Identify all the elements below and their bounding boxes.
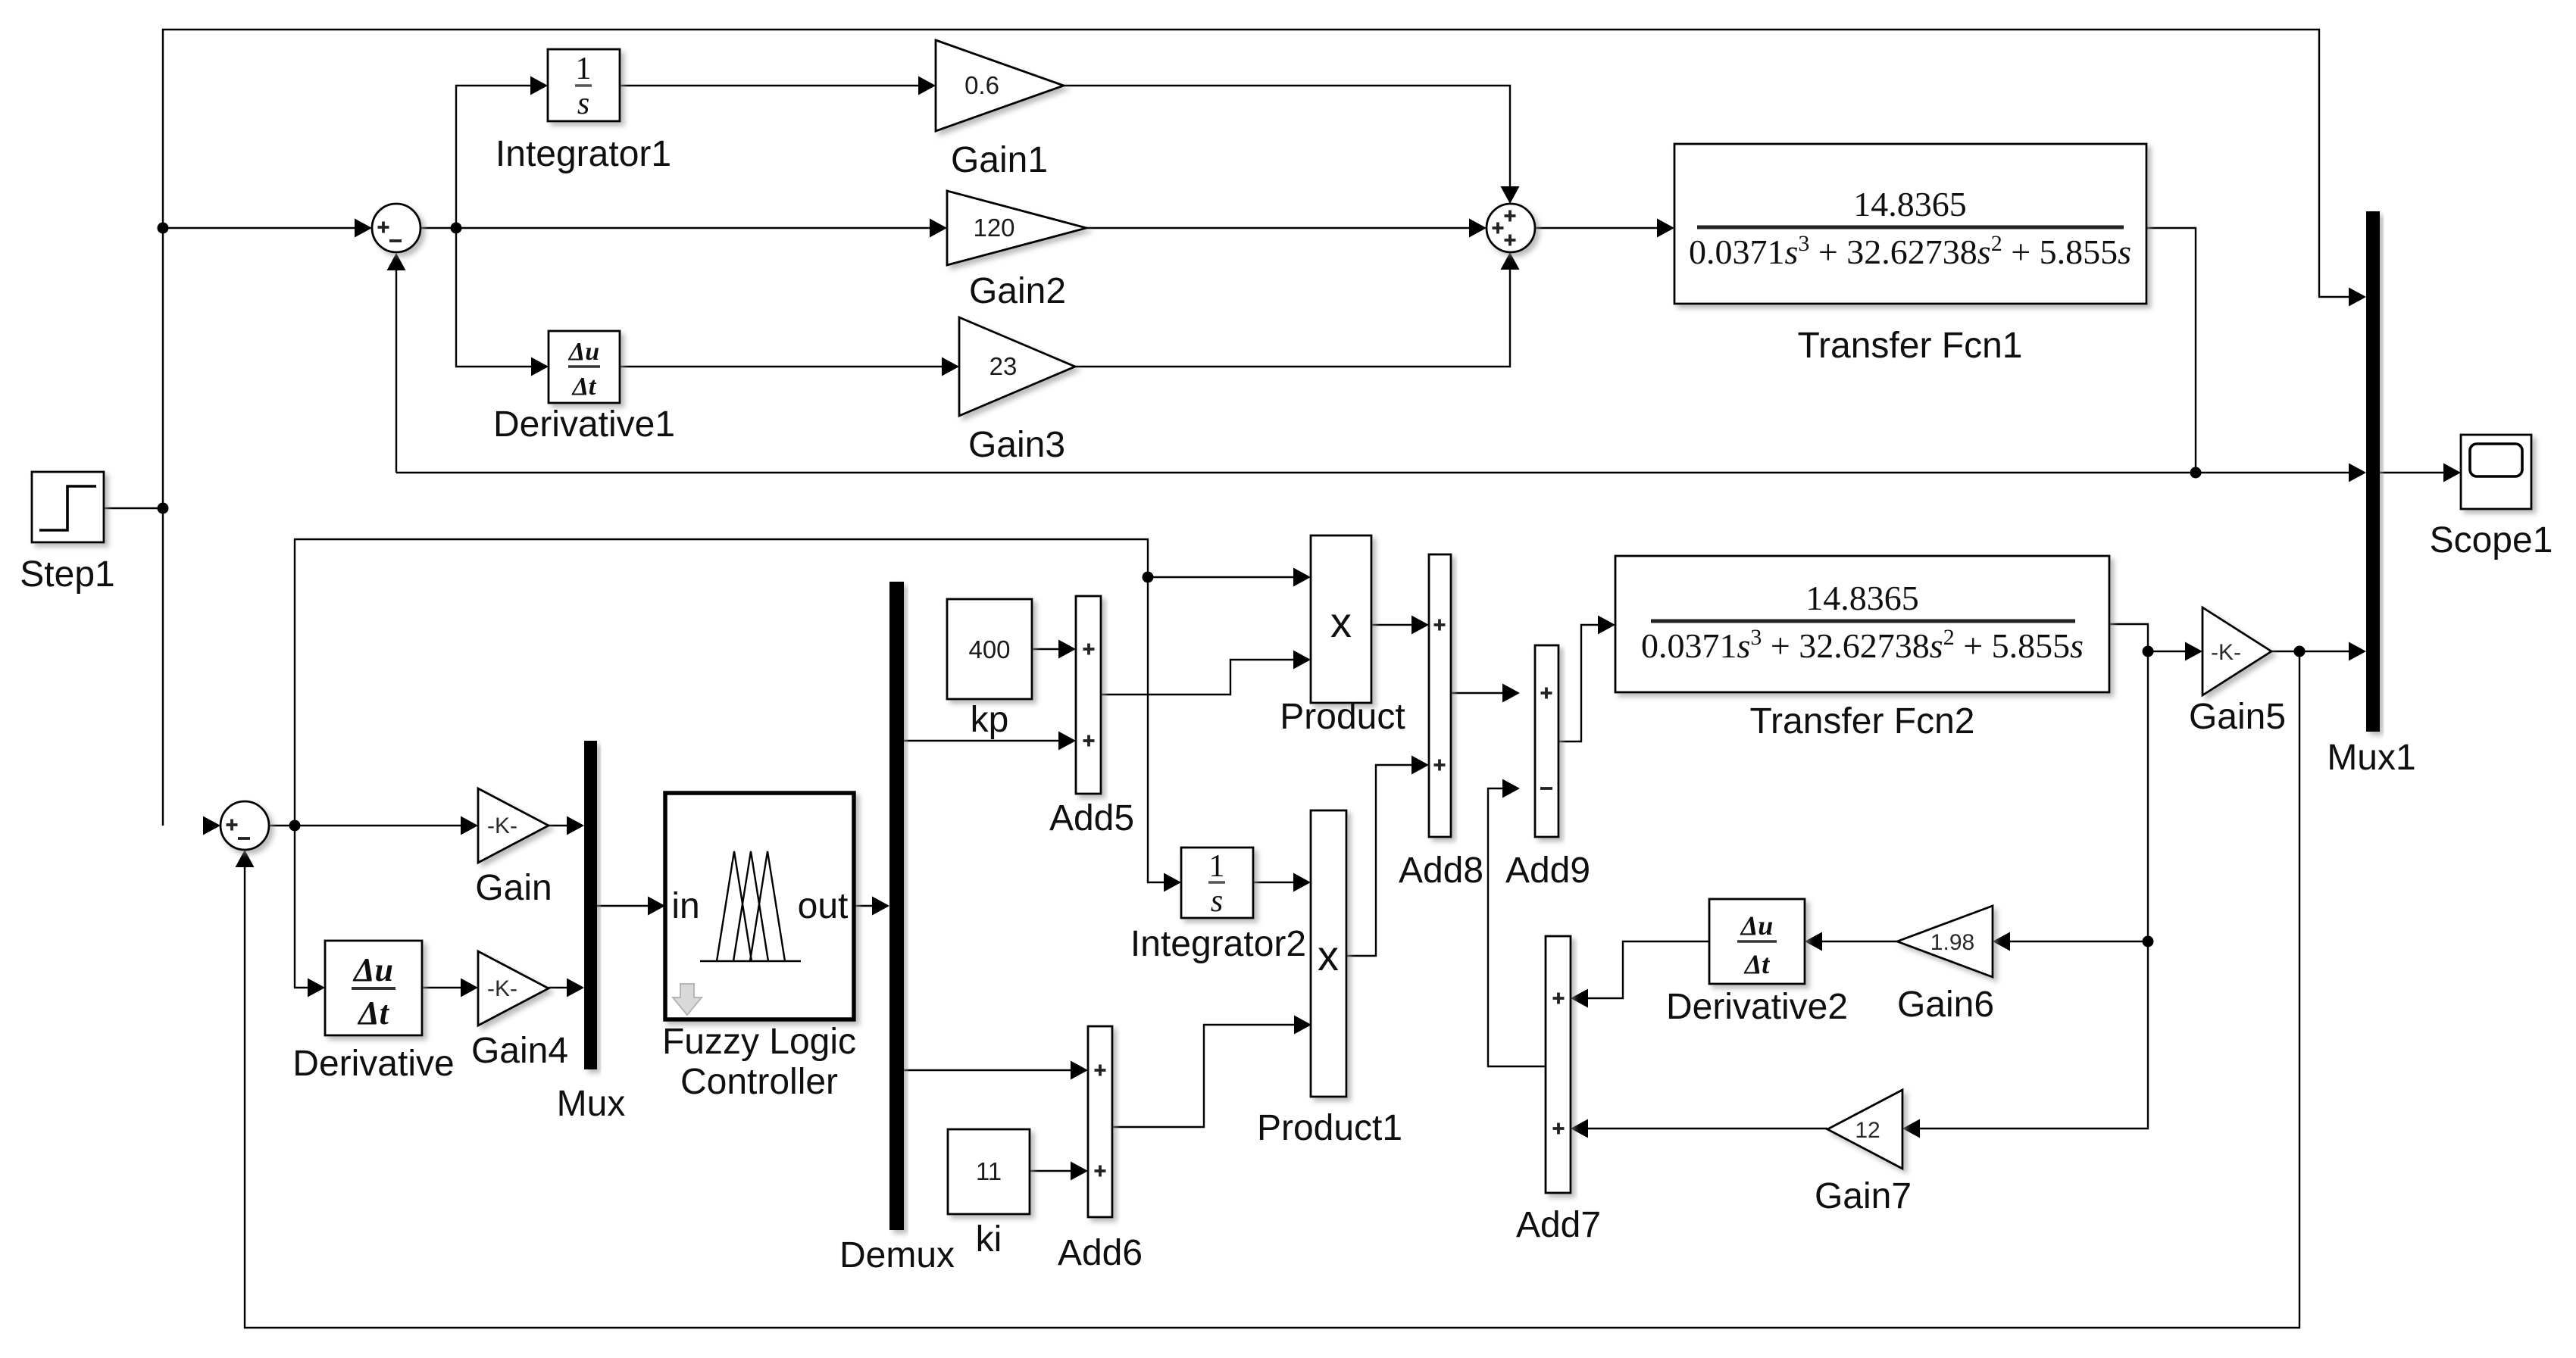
svg-text:Δu: Δu (1740, 910, 1774, 941)
wire Gain7 to Add7 plus2 (1588, 1128, 1827, 1129)
svg-text:Gain3: Gain3 (968, 425, 1065, 465)
mux Mux1 (2366, 211, 2380, 732)
wire trunk to Sum1 (163, 227, 355, 229)
svg-text:14.8365: 14.8365 (1805, 579, 1919, 617)
sum Sum1 (372, 204, 420, 252)
wire Add9 to TransferFcn2 (1558, 625, 1598, 741)
wire TransferFcn2 out (2109, 624, 2148, 651)
wire kp const to Add5 (1032, 648, 1058, 650)
svg-text:Transfer Fcn1: Transfer Fcn1 (1798, 326, 2023, 366)
wire Gain6 to Derivative2 (1822, 941, 1897, 942)
gain Gain1 (936, 40, 1064, 131)
wire Gain4 to Mux (549, 987, 567, 988)
wire inner feedback down to Gain7 (1920, 651, 2148, 1129)
svg-text:Mux: Mux (557, 1084, 626, 1124)
svg-text:23: 23 (989, 352, 1018, 380)
svg-text:Scope1: Scope1 (2430, 520, 2553, 560)
svg-text:kp: kp (971, 700, 1009, 740)
gain Gain5 (2202, 607, 2271, 695)
svg-text:Derivative: Derivative (292, 1044, 454, 1084)
wire Gain5 to Mux1 input3 (2271, 651, 2349, 652)
mux Mux (584, 741, 597, 1069)
gain Gain4 (478, 951, 549, 1026)
svg-text:Integrator2: Integrator2 (1130, 924, 1306, 964)
svg-text:Derivative1: Derivative1 (493, 404, 675, 445)
svg-text:Δt: Δt (357, 994, 390, 1032)
svg-text:Add5: Add5 (1049, 798, 1134, 838)
wire error branch to Product input1 (1148, 576, 1293, 578)
block TransferFcn2 (1615, 556, 2109, 692)
svg-text:Derivative2: Derivative2 (1666, 987, 1848, 1027)
svg-text:Δt: Δt (1743, 949, 1771, 979)
node sum3 output branch (289, 820, 301, 832)
svg-text:x: x (1330, 598, 1352, 646)
svg-text:in: in (671, 886, 699, 926)
sum Sum3 (220, 801, 269, 850)
node trunk-sum1 junction (158, 223, 169, 234)
wire Sum1 out to Gain2 (420, 227, 930, 229)
wire Step1 to junction (104, 507, 163, 509)
svg-text:1: 1 (576, 52, 592, 86)
svg-text:120: 120 (973, 214, 1014, 242)
svg-text:Gain7: Gain7 (1815, 1176, 1912, 1216)
wire Integrator2 to Product1 input1 (1253, 882, 1293, 883)
const kp400 (947, 599, 1032, 699)
svg-text:Δt: Δt (571, 373, 597, 401)
wire Sum3 out to Gain (269, 825, 461, 826)
wire Derivative2 to Add7 plus1 (1588, 941, 1709, 998)
node feedback junction (2190, 467, 2202, 479)
wire Add8 to Add9 (1451, 692, 1502, 694)
wire trunk into Sum3 (203, 816, 220, 835)
svg-text:Demux: Demux (839, 1235, 955, 1275)
block TransferFcn1 (1674, 144, 2146, 304)
svg-text:Add6: Add6 (1058, 1233, 1143, 1273)
svg-text:Gain4: Gain4 (471, 1031, 568, 1071)
svg-text:11: 11 (976, 1157, 1002, 1185)
const ki11 (948, 1129, 1030, 1214)
block Derivative1 (549, 331, 620, 403)
svg-text:-K-: -K- (487, 976, 517, 1001)
svg-text:Gain5: Gain5 (2189, 697, 2286, 737)
block Scope1 (2461, 435, 2531, 509)
svg-text:Controller: Controller (680, 1062, 838, 1102)
gain Gain7 (1827, 1090, 1902, 1169)
wire to Gain5 (2148, 651, 2185, 652)
svg-text:Add8: Add8 (1399, 851, 1483, 891)
svg-text:Fuzzy Logic: Fuzzy Logic (662, 1022, 856, 1062)
wire Add5 to Product input2 (1101, 660, 1293, 695)
svg-text:-K-: -K- (487, 813, 517, 838)
svg-text:0.0371s3 + 32.62738s2 + 5.855s: 0.0371s3 + 32.62738s2 + 5.855s (1641, 625, 2084, 665)
svg-text:Product: Product (1280, 697, 1405, 737)
wire Product to Add8 (1371, 624, 1411, 626)
node tf2 output junction (2143, 646, 2154, 657)
wire Add7 out to Add9 minus (1488, 788, 1546, 1066)
wire feedback row to Mux1 input2 (396, 472, 2349, 473)
svg-text:Product1: Product1 (1257, 1108, 1402, 1148)
block Derivative (325, 941, 422, 1035)
svg-text:x: x (1318, 932, 1339, 979)
wire Mux1 to Scope1 (2380, 472, 2443, 473)
block Step1 (32, 472, 104, 542)
block Derivative2 (1709, 899, 1805, 984)
node gain5 output junction (2294, 646, 2306, 657)
svg-text:Δu: Δu (352, 951, 393, 988)
node sum1 output branch (451, 223, 462, 234)
svg-text:0.0371s3 + 32.62738s2 + 5.855s: 0.0371s3 + 32.62738s2 + 5.855s (1689, 231, 2131, 271)
add Add5 (1076, 596, 1101, 794)
sum Sum2 (1487, 204, 1535, 252)
svg-text:s: s (1211, 884, 1223, 919)
wire outer feedback Gain5 to Sum3 minus (245, 651, 2299, 1328)
wire Gain3 to Sum2 bottom (1075, 270, 1510, 367)
wire error up over and down to Integrator2 (295, 539, 1164, 882)
svg-text:Integrator1: Integrator1 (496, 134, 671, 174)
svg-text:Step1: Step1 (20, 554, 114, 595)
svg-text:ki: ki (976, 1219, 1002, 1260)
gain Gain6 (1897, 906, 1993, 977)
block Product1 (1311, 810, 1346, 1097)
svg-text:1: 1 (1209, 849, 1225, 884)
node trunk-step junction (158, 503, 169, 514)
svg-text:Mux1: Mux1 (2327, 738, 2415, 778)
svg-text:Δu: Δu (567, 338, 599, 366)
wire main vertical trunk + top border to Mux1 input1 (163, 30, 2349, 826)
svg-text:1.98: 1.98 (1930, 930, 1974, 955)
wire Product1 to Add8 (1346, 765, 1411, 956)
wire branch to Gain6 (2010, 941, 2148, 942)
node gain6 branch junction (2143, 936, 2154, 947)
block Product (1311, 535, 1371, 703)
block Integrator1 (548, 49, 620, 121)
gain Gain2 (947, 191, 1086, 265)
wire Sum2 to TransferFcn1 (1535, 227, 1657, 229)
svg-text:Gain6: Gain6 (1897, 985, 1994, 1025)
wire Derivative to Gain4 (422, 987, 461, 988)
add Add9 (1535, 645, 1558, 837)
wire feedback up into Sum1 minus (395, 270, 397, 473)
svg-text:Add7: Add7 (1516, 1205, 1601, 1245)
block FuzzyLogicController (665, 793, 854, 1019)
node error to Product branch (1143, 572, 1154, 583)
demux Demux (889, 582, 904, 1230)
svg-text:0.6: 0.6 (964, 71, 999, 99)
wire Demux out2 to Add6 (904, 1069, 1071, 1071)
wire Integrator1 to Gain1 (620, 85, 918, 86)
wire Mux to Fuzzy (597, 905, 648, 907)
wire Demux out1 to Add5 (904, 740, 1058, 741)
wire ki const to Add6 (1030, 1170, 1071, 1172)
svg-text:s: s (577, 86, 589, 121)
wire Gain to Mux (549, 825, 567, 826)
gain Gain (478, 788, 549, 863)
wire branch down to Derivative1 (456, 228, 531, 367)
svg-text:400: 400 (968, 635, 1010, 663)
block Integrator2 (1181, 848, 1253, 918)
svg-text:out: out (798, 886, 849, 926)
wire Gain1 to Sum2 top (1064, 86, 1510, 186)
svg-text:Gain1: Gain1 (951, 140, 1048, 180)
wire TransferFcn1 out down to feedback row (2146, 228, 2196, 473)
svg-text:Add9: Add9 (1505, 851, 1590, 891)
wire Fuzzy to Demux (854, 905, 872, 907)
add Add8 (1429, 554, 1451, 837)
svg-text:-K-: -K- (2211, 640, 2241, 665)
svg-text:14.8365: 14.8365 (1853, 185, 1967, 223)
wire Add6 to Product1 input2 (1112, 1025, 1294, 1127)
add Add6 (1088, 1026, 1112, 1217)
gain Gain3 (959, 317, 1075, 416)
svg-text:Transfer Fcn2: Transfer Fcn2 (1750, 701, 1975, 741)
svg-text:12: 12 (1855, 1118, 1880, 1143)
wire branch up to Integrator1 (456, 86, 530, 228)
wire Derivative1 to Gain3 (620, 366, 942, 367)
wire Gain2 to Sum2 left (1086, 227, 1469, 229)
add Add7 (1546, 936, 1571, 1193)
svg-text:Gain2: Gain2 (969, 271, 1066, 311)
svg-text:Gain: Gain (475, 868, 552, 908)
wire branch down to Derivative (295, 826, 308, 988)
